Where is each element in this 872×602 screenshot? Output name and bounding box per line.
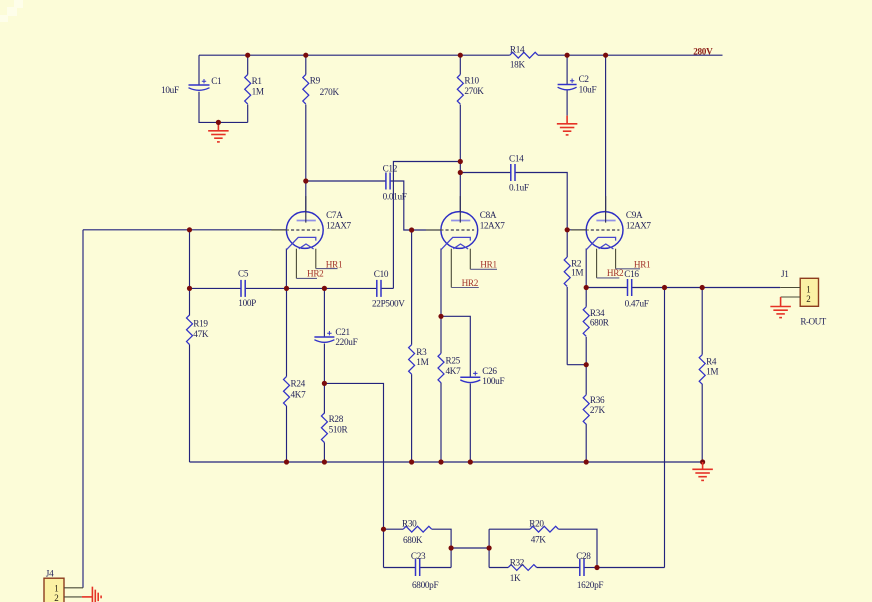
svg-text:1M: 1M	[706, 367, 718, 377]
capacitor C21 220uF	[314, 331, 334, 342]
svg-text:R28: R28	[329, 414, 344, 424]
svg-text:10uF: 10uF	[161, 85, 179, 95]
wire R34 leads	[585, 288, 587, 307]
net label HR1 C8A	[470, 268, 497, 270]
svg-text:0.01uF: 0.01uF	[383, 192, 407, 202]
junction R10 C10 riser	[458, 159, 463, 164]
svg-text:C14: C14	[509, 154, 524, 164]
junction bus R28	[322, 459, 327, 464]
wire C7A grid input	[83, 229, 286, 231]
svg-text:C5: C5	[238, 268, 249, 278]
junction rail R1	[245, 53, 250, 58]
svg-text:R24: R24	[291, 378, 306, 388]
net label HR2 C8A	[451, 287, 479, 289]
triode U C7A 12AX7	[271, 196, 323, 250]
svg-text:R30: R30	[402, 519, 417, 529]
wire feedback network right box	[488, 529, 490, 567]
svg-text:47K: 47K	[531, 535, 547, 545]
heater pins C8A	[450, 249, 452, 288]
resistor R14 18K	[510, 52, 538, 58]
svg-text:C10: C10	[374, 269, 389, 279]
svg-text:R3: R3	[416, 347, 427, 357]
resistor R2 1M	[564, 257, 570, 287]
svg-text:R4: R4	[706, 357, 717, 367]
pin J1-2	[781, 296, 801, 298]
junction rail C9A	[603, 53, 608, 58]
svg-text:47K: 47K	[193, 329, 209, 339]
svg-text:R34: R34	[590, 308, 605, 318]
net label HR2 C9A	[597, 277, 620, 279]
wire feedback bottom to riser	[597, 567, 665, 569]
svg-text:R25: R25	[446, 355, 461, 365]
svg-text:280V: 280V	[693, 46, 713, 56]
svg-text:1M: 1M	[416, 357, 428, 367]
resistor R24 4K7	[284, 377, 290, 407]
wire feedback network left box	[384, 528, 404, 530]
svg-text:1M: 1M	[252, 86, 264, 96]
wire R24 leads	[286, 288, 288, 376]
svg-text:HR1: HR1	[634, 259, 651, 269]
junction feedback left	[381, 527, 386, 532]
capacitor C10 22P500V	[377, 280, 381, 297]
capacitor C1 10uF	[189, 79, 210, 90]
svg-text:2: 2	[806, 294, 810, 304]
junction rail R10	[458, 53, 463, 58]
svg-text:C9A: C9A	[626, 210, 643, 220]
resistor R3 1M	[409, 345, 415, 375]
svg-text:HR1: HR1	[480, 260, 497, 270]
svg-text:C26: C26	[482, 366, 497, 376]
resistor R34 680R	[583, 307, 589, 337]
svg-text:C16: C16	[624, 269, 639, 279]
junction output C9A cathode	[584, 285, 589, 290]
wire C9A cathode drop	[585, 249, 587, 288]
junction y288 C7A cathode R24	[284, 286, 289, 291]
wire C7A cathode drop	[285, 249, 287, 289]
svg-text:100uF: 100uF	[482, 376, 504, 386]
wire C26 branch	[441, 316, 470, 377]
resistor R32 1K	[508, 565, 537, 571]
triode U C8A 12AX7	[426, 196, 478, 250]
svg-text:R9: R9	[310, 76, 321, 86]
svg-text:0.1uF: 0.1uF	[509, 182, 529, 192]
svg-text:C2: C2	[579, 74, 590, 84]
junction bus R24	[284, 459, 289, 464]
wire C12 net plate-to-grid	[306, 180, 386, 182]
svg-text:C7A: C7A	[326, 210, 343, 220]
svg-text:R-OUT: R-OUT	[800, 316, 826, 326]
junction bus ground	[700, 459, 705, 464]
svg-text:27K: 27K	[590, 405, 606, 415]
svg-text:J4: J4	[46, 568, 54, 578]
svg-text:10uF: 10uF	[579, 85, 597, 95]
resistor R19 47K	[187, 315, 193, 345]
resistor R30 680K	[403, 526, 432, 532]
capacitor C2 10uF	[558, 79, 577, 90]
wire feedback tap to bottom network	[324, 383, 383, 567]
wire R28 leads	[323, 383, 325, 413]
resistor R1 1M	[245, 75, 251, 105]
junction bus R36	[584, 459, 589, 464]
wire C8A cathode drop	[440, 249, 442, 354]
svg-text:HR1: HR1	[326, 259, 343, 269]
wire R10 plate C8A	[459, 55, 461, 74]
capacitor C28 1620pF	[580, 559, 584, 576]
svg-text:12AX7: 12AX7	[626, 221, 651, 231]
svg-text:2: 2	[54, 593, 58, 602]
junction feedback right	[594, 565, 599, 570]
capacitor C16 0.47uF	[628, 279, 632, 296]
ground C1	[208, 123, 229, 142]
wire link between RC boxes	[451, 547, 489, 549]
wire B+ rail top	[199, 54, 510, 56]
triode U C9A 12AX7	[571, 196, 623, 250]
svg-text:12AX7: 12AX7	[326, 221, 351, 231]
wire C1 branch	[198, 55, 200, 85]
resistor R9 270K	[303, 75, 309, 105]
wire cathode bus C7A y288	[190, 287, 242, 289]
junction output feedback riser	[662, 285, 667, 290]
resistor R25 4K7	[438, 353, 444, 383]
junction bus R3	[409, 459, 414, 464]
svg-text:J1: J1	[781, 269, 789, 279]
svg-text:6800pF: 6800pF	[412, 580, 438, 590]
junction output R4	[700, 285, 705, 290]
wire R4 leads	[701, 288, 703, 355]
wire R1 leads	[247, 55, 249, 74]
svg-text:R32: R32	[510, 558, 525, 568]
net label HR2 C7A	[296, 277, 317, 279]
svg-text:270K: 270K	[464, 86, 484, 96]
svg-text:C12: C12	[383, 163, 398, 173]
svg-text:18K: 18K	[510, 59, 526, 69]
resistor R10 270K	[457, 75, 463, 105]
junction R10 C14	[458, 170, 463, 175]
svg-text:C23: C23	[411, 551, 426, 561]
wire R9 plate C7A	[305, 55, 307, 74]
svg-text:R14: R14	[510, 44, 525, 54]
wire C14 net	[460, 172, 511, 174]
svg-text:R36: R36	[590, 395, 605, 405]
svg-text:1620pF: 1620pF	[577, 580, 603, 590]
ground J1	[770, 297, 791, 318]
wire R36 leads	[585, 365, 587, 395]
junction y288 C21	[322, 286, 327, 291]
svg-text:0.47uF: 0.47uF	[625, 299, 649, 309]
svg-text:HR2: HR2	[307, 268, 324, 278]
junction C9A grid	[565, 227, 570, 232]
capacitor C26 100uF	[460, 371, 480, 382]
resistor R4 1M	[699, 355, 705, 385]
svg-text:270K: 270K	[320, 87, 340, 97]
wire C21 leads	[323, 288, 325, 337]
junction R34 R36 R2	[584, 362, 589, 367]
wire feedback riser from output	[664, 288, 666, 568]
svg-text:12AX7: 12AX7	[480, 221, 505, 231]
svg-text:510R: 510R	[329, 424, 349, 434]
svg-text:C8A: C8A	[480, 210, 497, 220]
junction C21 R28 feedback tap	[322, 381, 327, 386]
wire C10 to C8A plate riser	[393, 162, 460, 289]
wire R19 branch	[189, 230, 191, 316]
junction bus R25	[438, 459, 443, 464]
junction C8A grid	[409, 227, 414, 232]
capacitor C23 6800pF	[416, 559, 420, 576]
junction rail R9	[303, 53, 308, 58]
resistor R28 510R	[321, 413, 327, 443]
svg-text:1M: 1M	[571, 268, 583, 278]
svg-text:680K: 680K	[403, 535, 423, 545]
svg-text:22P500V: 22P500V	[372, 298, 405, 308]
svg-text:C21: C21	[335, 327, 350, 337]
svg-text:220uF: 220uF	[335, 337, 357, 347]
svg-text:C28: C28	[576, 551, 591, 561]
svg-text:4K7: 4K7	[446, 366, 462, 376]
svg-text:R19: R19	[193, 319, 208, 329]
junction C7A plate C12	[303, 178, 308, 183]
sheet corner artifact	[0, 0, 23, 22]
svg-text:R10: R10	[464, 76, 479, 86]
ground C2	[557, 116, 578, 135]
ground J4 rotated	[82, 587, 101, 602]
svg-text:C1: C1	[211, 76, 222, 86]
junction link right	[487, 545, 492, 550]
svg-text:680R: 680R	[590, 318, 610, 328]
junction bus C26	[468, 459, 473, 464]
svg-text:HR2: HR2	[607, 268, 624, 278]
svg-text:R1: R1	[252, 76, 263, 86]
ground bus right	[692, 462, 713, 480]
resistor R36 27K	[583, 395, 589, 425]
wire R3 leads	[411, 230, 413, 345]
wire C9A plate drop	[605, 55, 607, 211]
wire C2 lead	[566, 55, 568, 84]
wire ground bus bottom	[190, 461, 703, 463]
svg-text:1K: 1K	[510, 573, 521, 583]
junction C1 ground	[216, 120, 221, 125]
wire R2 leads	[566, 230, 568, 257]
junction link left	[449, 545, 454, 550]
connector J4 input	[44, 578, 64, 602]
net label HR1 C9A	[616, 268, 640, 270]
capacitor C12 0.01uF	[386, 173, 390, 190]
heater pins C9A	[596, 249, 598, 278]
svg-text:R20: R20	[529, 519, 544, 529]
connector J1 R-OUT	[800, 278, 818, 306]
svg-text:4K7: 4K7	[291, 389, 307, 399]
wire R25 lower lead	[440, 383, 442, 462]
resistor R20 47K	[530, 526, 559, 532]
wire C9A grid stub	[567, 229, 586, 231]
pin J4-2	[64, 596, 82, 598]
pin J4-1	[64, 587, 83, 589]
junction y288 C5 left	[187, 286, 192, 291]
capacitor C5 100P	[241, 280, 245, 297]
wire R2 to R34 link	[567, 364, 586, 366]
svg-text:100P: 100P	[238, 298, 256, 308]
junction R25 C26 top	[438, 314, 443, 319]
svg-text:HR2: HR2	[462, 278, 479, 288]
wire input riser from J4	[82, 230, 84, 588]
net label HR1 C7A	[316, 268, 338, 270]
wire output node y287.5	[586, 287, 627, 289]
heater pins C7A	[295, 249, 297, 279]
junction C7A grid R19	[187, 227, 192, 232]
pin J1-1	[780, 287, 800, 289]
capacitor C14 0.1uF	[511, 164, 515, 181]
junction rail C2	[565, 53, 570, 58]
